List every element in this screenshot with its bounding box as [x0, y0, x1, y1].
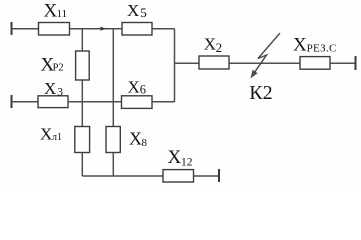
arrow marker on top wire [101, 27, 107, 31]
resistor X2 [199, 56, 229, 69]
wire X3 to X6 (middle wire) [68, 101, 122, 103]
wire X8 upper segment [112, 102, 114, 127]
resistor XL1 (vertical) [75, 127, 90, 153]
wire T1 to X11 [12, 28, 39, 30]
label K2 [249, 82, 272, 104]
wire bottom horizontal [82, 175, 163, 177]
svg-text:РЕЗ.С: РЕЗ.С [307, 42, 337, 54]
resistor XREZ.S [300, 57, 330, 70]
terminal T1 (top-left input) [11, 22, 13, 35]
terminal T2 (middle-left input) [11, 95, 13, 108]
resistor X5 [122, 23, 152, 36]
svg-text:X: X [293, 34, 307, 55]
wire XREZ.S to terminal T4 [330, 62, 356, 64]
terminal T4 (right output) [355, 56, 357, 70]
label XP2 [41, 54, 64, 75]
short-circuit arrow K2 (lightning bolt) [251, 33, 280, 78]
wire vertical link top-to-middle [112, 29, 114, 102]
svg-text:X: X [128, 77, 140, 96]
wire node B to X2 [175, 62, 200, 64]
label XREZ.S [293, 34, 337, 55]
label X8 [129, 129, 148, 149]
wire X6 to right vertical [152, 101, 175, 103]
label XL1 [40, 125, 62, 144]
svg-text:Р2: Р2 [53, 63, 64, 74]
svg-text:X: X [204, 35, 216, 54]
svg-text:X: X [44, 1, 58, 22]
wire L1 upper segment [81, 102, 83, 127]
svg-text:X: X [127, 1, 139, 20]
wire X2 to XREZ.S [229, 62, 300, 64]
resistor XP2 (vertical) [76, 51, 90, 80]
wire T2 to X3 [12, 101, 39, 103]
resistor X6 [122, 96, 153, 109]
label X2 [204, 35, 222, 55]
wire branch P2 top segment [81, 29, 83, 51]
wire P2 bottom segment [81, 80, 83, 102]
wire X12 to terminal T3 [194, 175, 220, 177]
label X6 [128, 77, 147, 96]
svg-text:6: 6 [140, 83, 146, 97]
wire X11 to X5 (top wire) [70, 28, 123, 30]
svg-text:11: 11 [57, 8, 68, 20]
label X3 [44, 79, 63, 99]
label X11 [44, 1, 68, 22]
svg-text:5: 5 [140, 5, 147, 20]
svg-text:2: 2 [216, 40, 223, 55]
svg-text:8: 8 [142, 137, 148, 149]
wire right vertical (node B) [174, 29, 176, 102]
wire L1 lower segment [81, 153, 83, 177]
svg-text:К2: К2 [249, 82, 272, 104]
svg-text:X: X [40, 125, 52, 144]
svg-text:12: 12 [181, 157, 193, 169]
svg-text:X: X [129, 129, 142, 149]
resistor X8 (vertical) [106, 127, 120, 153]
svg-text:3: 3 [57, 87, 63, 99]
svg-text:л1: л1 [52, 132, 62, 143]
resistor X3 [38, 96, 68, 108]
label X12 [168, 147, 193, 169]
label X5 [127, 1, 147, 20]
wire X5 to right vertical [152, 28, 175, 30]
resistor X12 [163, 170, 194, 182]
wire X8 lower segment [112, 153, 114, 177]
svg-text:X: X [44, 79, 56, 98]
svg-text:X: X [168, 147, 182, 168]
resistor X11 [39, 23, 70, 36]
terminal T3 (bottom-right) [218, 169, 220, 182]
